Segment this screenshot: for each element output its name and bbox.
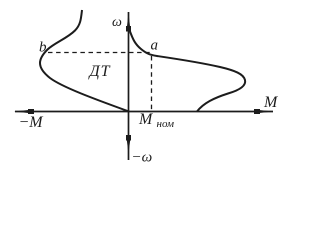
svg-text:b: b bbox=[39, 40, 47, 56]
svg-text:a: a bbox=[151, 38, 159, 54]
svg-text:−ω: −ω bbox=[132, 150, 153, 166]
svg-text:M: M bbox=[138, 111, 154, 128]
svg-text:ном: ном bbox=[157, 118, 175, 130]
svg-text:ω: ω bbox=[112, 15, 122, 30]
svg-text:ДТ: ДТ bbox=[88, 63, 111, 80]
svg-text:−M: −M bbox=[19, 114, 45, 131]
svg-text:M: M bbox=[263, 94, 279, 111]
